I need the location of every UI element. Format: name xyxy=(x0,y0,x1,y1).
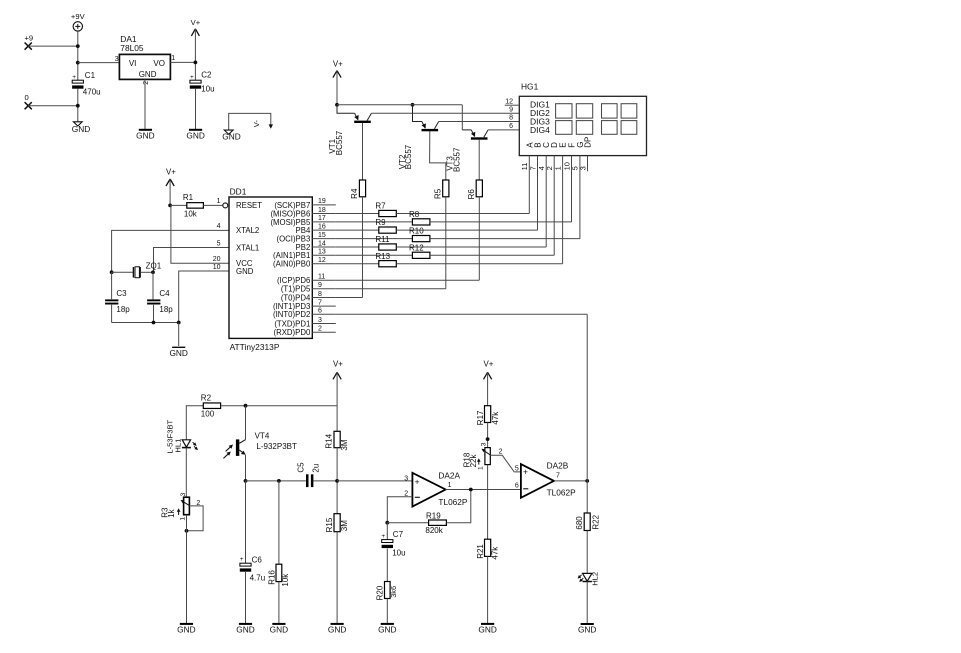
svg-text:1k: 1k xyxy=(167,508,176,517)
svg-text:680: 680 xyxy=(575,516,584,530)
svg-text:C6: C6 xyxy=(252,555,263,564)
svg-text:DIG4: DIG4 xyxy=(530,125,550,135)
svg-text:5: 5 xyxy=(217,240,221,247)
svg-text:R12: R12 xyxy=(409,243,424,252)
svg-text:GND: GND xyxy=(177,625,195,635)
svg-text:R21: R21 xyxy=(476,544,485,559)
svg-text:DA2B: DA2B xyxy=(547,461,569,471)
svg-text:10u: 10u xyxy=(392,549,405,558)
svg-text:GND: GND xyxy=(270,625,288,635)
svg-text:1: 1 xyxy=(448,482,452,489)
svg-text:R7: R7 xyxy=(375,202,386,211)
svg-text:47k: 47k xyxy=(491,411,500,425)
svg-text:9: 9 xyxy=(509,106,513,113)
svg-text:HG1: HG1 xyxy=(521,82,539,92)
svg-text:R20: R20 xyxy=(375,585,384,600)
svg-text:7: 7 xyxy=(556,472,560,479)
svg-text:VO: VO xyxy=(153,59,165,68)
svg-text:V-: V- xyxy=(252,120,261,128)
svg-text:V+: V+ xyxy=(483,360,493,369)
svg-text:TL062P: TL062P xyxy=(438,497,468,507)
svg-text:820k: 820k xyxy=(425,526,443,535)
svg-text:XTAL1: XTAL1 xyxy=(236,243,259,252)
svg-text:GND: GND xyxy=(236,625,254,635)
svg-text:18p: 18p xyxy=(159,305,173,314)
svg-text:10k: 10k xyxy=(184,209,198,218)
svg-text:(RXD)PD0: (RXD)PD0 xyxy=(273,328,310,337)
svg-text:1: 1 xyxy=(180,517,187,521)
svg-text:20: 20 xyxy=(213,256,221,263)
svg-text:8: 8 xyxy=(509,115,513,122)
svg-text:HL1: HL1 xyxy=(174,439,183,453)
svg-text:DD1: DD1 xyxy=(230,186,247,196)
svg-text:9: 9 xyxy=(318,282,322,289)
svg-text:3M: 3M xyxy=(340,439,349,450)
svg-text:VI: VI xyxy=(129,59,137,68)
svg-text:3: 3 xyxy=(578,166,587,170)
svg-text:R22: R22 xyxy=(591,514,600,529)
svg-text:R11: R11 xyxy=(375,235,390,244)
svg-text:GND: GND xyxy=(136,130,154,140)
svg-text:R14: R14 xyxy=(325,433,334,448)
svg-text:VT4: VT4 xyxy=(255,432,270,441)
svg-text:C4: C4 xyxy=(159,289,170,298)
svg-text:V+: V+ xyxy=(333,59,343,68)
svg-text:C3: C3 xyxy=(116,289,127,298)
svg-text:16: 16 xyxy=(318,223,326,230)
svg-text:BC557: BC557 xyxy=(404,144,413,169)
svg-text:E: E xyxy=(559,142,568,147)
svg-text:6: 6 xyxy=(515,483,519,490)
svg-text:GND: GND xyxy=(378,625,396,635)
svg-text:47k: 47k xyxy=(490,546,499,560)
svg-text:GND: GND xyxy=(478,625,496,635)
svg-text:GND: GND xyxy=(186,130,204,140)
svg-text:GND: GND xyxy=(72,124,90,134)
svg-text:15: 15 xyxy=(318,232,326,239)
svg-text:3: 3 xyxy=(318,317,322,324)
svg-text:TL062P: TL062P xyxy=(547,488,577,498)
svg-text:470u: 470u xyxy=(83,88,101,97)
svg-text:R6: R6 xyxy=(467,189,476,200)
svg-text:DA2A: DA2A xyxy=(438,471,460,481)
svg-text:R4: R4 xyxy=(350,188,359,199)
svg-text:8: 8 xyxy=(318,291,322,298)
svg-text:12: 12 xyxy=(505,98,513,105)
svg-text:+: + xyxy=(190,74,194,81)
svg-text:V+: V+ xyxy=(191,18,201,27)
svg-text:(T1)PD5: (T1)PD5 xyxy=(281,285,311,294)
svg-text:V+: V+ xyxy=(166,168,176,177)
svg-text:2: 2 xyxy=(499,449,503,456)
svg-text:22k: 22k xyxy=(469,454,478,468)
svg-text:4: 4 xyxy=(217,223,221,230)
svg-text:+9: +9 xyxy=(25,34,34,43)
svg-text:10: 10 xyxy=(213,264,221,271)
svg-text:+: + xyxy=(415,477,420,487)
svg-text:6: 6 xyxy=(509,123,513,130)
svg-text:1: 1 xyxy=(217,198,221,205)
svg-text:C5: C5 xyxy=(296,462,305,473)
svg-text:3: 3 xyxy=(115,56,119,63)
svg-text:0: 0 xyxy=(25,93,29,102)
svg-text:100: 100 xyxy=(201,409,215,418)
svg-text:ATTiny2313P: ATTiny2313P xyxy=(230,342,280,352)
svg-text:+: + xyxy=(381,533,385,540)
svg-text:L-932P3BT: L-932P3BT xyxy=(256,442,297,451)
svg-text:19: 19 xyxy=(318,198,326,205)
svg-text:13: 13 xyxy=(318,249,326,256)
svg-text:18: 18 xyxy=(318,207,326,214)
svg-text:10k: 10k xyxy=(281,573,290,587)
svg-text:V+: V+ xyxy=(333,360,343,369)
svg-text:BC557: BC557 xyxy=(335,130,344,155)
svg-text:3M: 3M xyxy=(340,520,349,531)
svg-text:3: 3 xyxy=(180,492,187,496)
svg-text:17: 17 xyxy=(318,215,326,222)
svg-text:3k6: 3k6 xyxy=(389,586,398,598)
svg-text:R16: R16 xyxy=(267,570,276,585)
svg-text:7: 7 xyxy=(528,166,537,170)
svg-text:R17: R17 xyxy=(476,410,485,425)
svg-text:R5: R5 xyxy=(434,188,443,199)
svg-text:RESET: RESET xyxy=(236,201,262,210)
svg-text:+: + xyxy=(523,467,528,477)
svg-text:18p: 18p xyxy=(116,305,130,314)
svg-text:1: 1 xyxy=(553,166,562,170)
svg-text:4.7u: 4.7u xyxy=(250,574,266,583)
svg-text:ZQ1: ZQ1 xyxy=(146,261,162,270)
svg-text:+: + xyxy=(72,74,76,81)
svg-text:7: 7 xyxy=(318,299,322,306)
svg-text:1: 1 xyxy=(478,466,485,470)
svg-text:5: 5 xyxy=(515,466,519,473)
svg-text:R19: R19 xyxy=(426,511,441,520)
svg-text:+9V: +9V xyxy=(71,12,86,21)
svg-text:3: 3 xyxy=(481,442,488,446)
svg-text:HL2: HL2 xyxy=(591,572,600,586)
svg-text:DP: DP xyxy=(584,137,593,148)
svg-text:R9: R9 xyxy=(375,218,386,227)
svg-text:GND: GND xyxy=(222,132,240,142)
svg-text:(TXD)PD1: (TXD)PD1 xyxy=(274,319,310,328)
svg-text:1: 1 xyxy=(171,55,175,62)
svg-text:78L05: 78L05 xyxy=(120,43,144,53)
svg-text:C2: C2 xyxy=(201,71,212,80)
svg-text:6: 6 xyxy=(318,308,322,315)
svg-text:R2: R2 xyxy=(201,394,212,403)
svg-text:XTAL2: XTAL2 xyxy=(236,226,259,235)
svg-text:11: 11 xyxy=(318,274,325,281)
svg-text:BC557: BC557 xyxy=(453,147,462,172)
svg-text:R8: R8 xyxy=(409,210,420,219)
svg-text:(AIN0)PB0: (AIN0)PB0 xyxy=(273,260,311,269)
svg-text:14: 14 xyxy=(318,240,326,247)
svg-text:C7: C7 xyxy=(393,530,404,539)
svg-text:GND: GND xyxy=(169,348,187,358)
svg-text:R1: R1 xyxy=(183,193,194,202)
svg-text:R13: R13 xyxy=(375,252,390,261)
svg-text:C1: C1 xyxy=(85,71,96,80)
svg-text:+: + xyxy=(240,556,244,563)
svg-text:12: 12 xyxy=(318,257,326,264)
svg-text:R15: R15 xyxy=(325,517,334,532)
svg-text:3: 3 xyxy=(404,476,408,483)
svg-text:B: B xyxy=(534,142,543,147)
svg-text:2u: 2u xyxy=(311,464,320,473)
svg-text:(INT0)PD2: (INT0)PD2 xyxy=(273,310,310,319)
svg-text:2: 2 xyxy=(318,326,322,333)
svg-text:GND: GND xyxy=(578,625,596,635)
svg-text:GND: GND xyxy=(236,267,254,276)
svg-text:2: 2 xyxy=(143,81,150,85)
svg-text:GND: GND xyxy=(139,70,157,79)
svg-text:GND: GND xyxy=(328,625,346,635)
svg-text:R10: R10 xyxy=(409,227,424,236)
svg-text:10u: 10u xyxy=(201,85,214,94)
